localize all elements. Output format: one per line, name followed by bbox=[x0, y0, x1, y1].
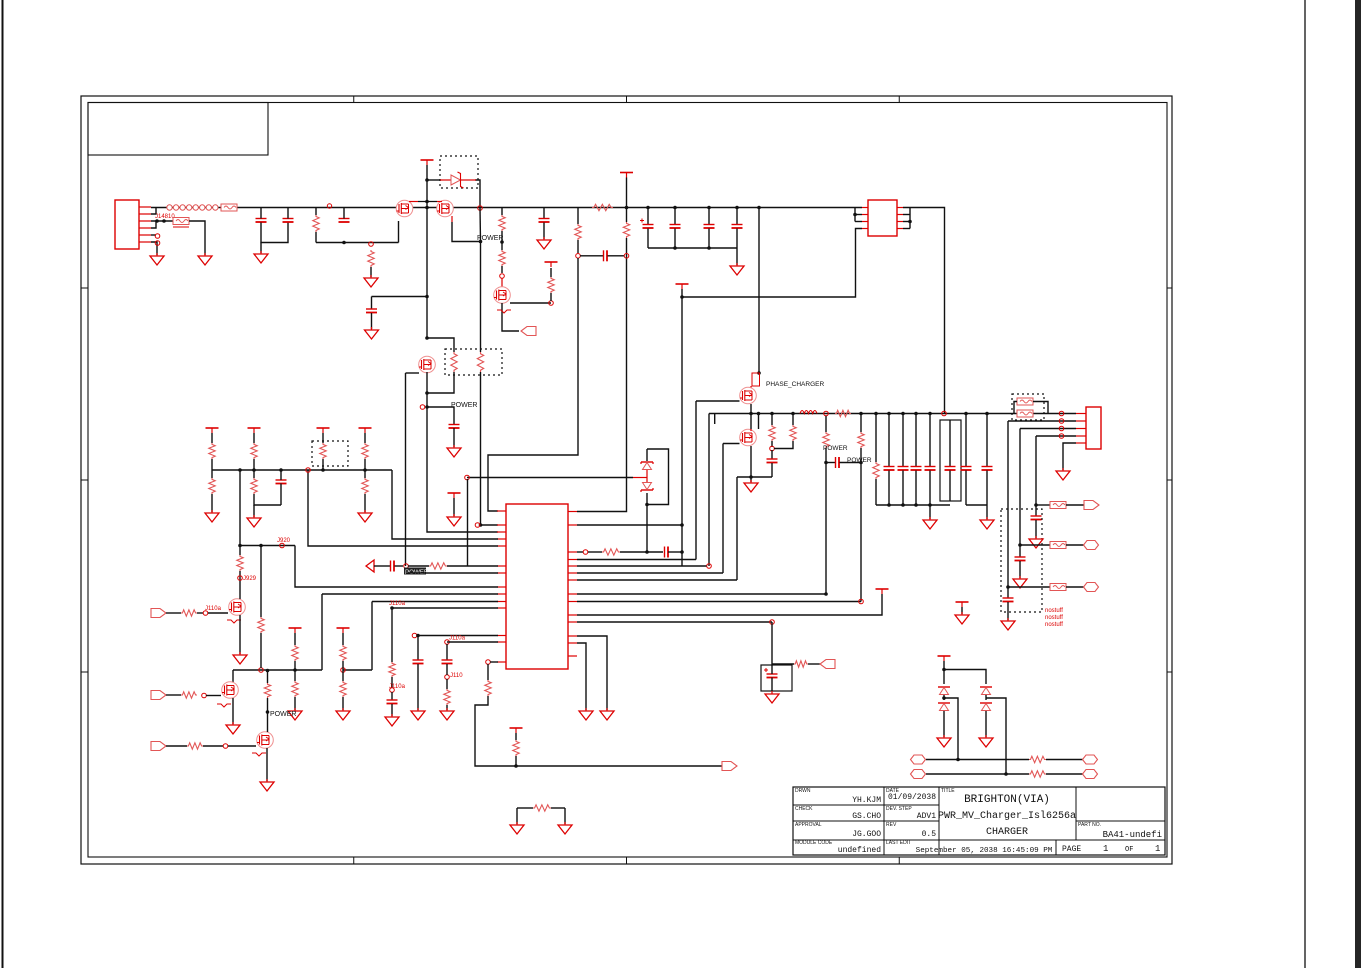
wire R26 bottom bbox=[211, 459, 213, 470]
wire diode midL branch bbox=[944, 698, 958, 760]
wire R6 bottom bbox=[501, 266, 503, 273]
junction bus2 C19 bbox=[985, 412, 989, 416]
wire row477 bbox=[467, 477, 633, 479]
wire C7 bottom bbox=[647, 229, 649, 249]
inductor L2 bbox=[800, 411, 817, 414]
bead L1 turn 4 bbox=[186, 205, 191, 210]
wire J2 pin4 bbox=[1036, 435, 1076, 437]
wire U2 pin635 left bbox=[418, 635, 498, 637]
wire x861 riser bbox=[860, 463, 862, 602]
wire cap bank bottom bbox=[648, 247, 737, 249]
junction circle x772 bbox=[770, 446, 775, 451]
ground G15 bbox=[955, 612, 969, 624]
zone tick right 3 bbox=[1167, 671, 1172, 673]
wire Q3 source bbox=[426, 372, 428, 407]
wire x322 riser bbox=[321, 594, 323, 670]
wire J2 pin2 bbox=[1008, 420, 1076, 422]
wire pin4 riser bbox=[1035, 436, 1037, 505]
wire diode D1 branch a bbox=[427, 179, 441, 181]
net flag FL1 bbox=[521, 327, 536, 336]
wire J1 pin4 jog bbox=[151, 221, 156, 228]
wire U1 rpin2 bbox=[903, 214, 910, 216]
top-left title box bbox=[88, 103, 268, 156]
wire POWER row b bbox=[408, 565, 429, 567]
ground G21 bbox=[579, 708, 593, 720]
resistor R41 bbox=[187, 743, 203, 749]
wire C4 top bbox=[543, 208, 545, 219]
fuse F4 (nostuff) bbox=[1017, 398, 1033, 405]
resistor R14 bbox=[790, 425, 796, 441]
power tap R29T bbox=[359, 428, 372, 433]
wire R18 top bbox=[875, 414, 877, 463]
wire R4 gnd bbox=[370, 267, 372, 277]
Q8 body diode bbox=[217, 704, 231, 707]
junction bus x675 bbox=[673, 206, 677, 210]
U2 left pin y566 stub bbox=[497, 565, 506, 567]
diode D8 bbox=[980, 703, 992, 711]
ground G9 bbox=[923, 517, 937, 529]
wire y297 to U1 bbox=[682, 229, 862, 298]
wire col295 d bbox=[294, 697, 296, 710]
wire R32 gnd bbox=[364, 494, 366, 512]
wire capbank2 gnd drop bbox=[929, 505, 931, 519]
J1 pin 1 stub bbox=[139, 206, 151, 208]
wire R10 bottom bbox=[427, 372, 454, 393]
U1 right pin 2 stub bbox=[897, 214, 903, 216]
wire R31 tails bbox=[253, 470, 255, 478]
wire x488 col bbox=[487, 664, 489, 680]
wire row560 bbox=[577, 559, 696, 561]
resistor R8 bbox=[575, 224, 581, 240]
junction circle J2 pin4 bbox=[1059, 434, 1064, 439]
capacitor C19 plates bbox=[982, 467, 993, 471]
junction x427 y338 bbox=[425, 336, 429, 340]
wire row601 bbox=[577, 601, 861, 603]
wire C20 drop bbox=[1035, 505, 1037, 516]
capacitor C10 plates bbox=[732, 225, 743, 229]
wire C18 top bbox=[965, 414, 967, 467]
junction circle bus x480 bbox=[478, 206, 483, 211]
junction x826 y462 bbox=[824, 461, 828, 465]
zone tick bottom 3 bbox=[898, 857, 900, 864]
wire P8 stem bbox=[453, 498, 455, 516]
U2 right pin y511.5 stub bbox=[568, 511, 577, 513]
Q7 body diode bbox=[227, 620, 241, 623]
sheet outer border bbox=[81, 96, 1172, 864]
wire D8 gnd bbox=[985, 711, 987, 737]
mosfet Q1 bbox=[396, 200, 413, 217]
sheet inner border bbox=[88, 103, 1167, 858]
junction circle row670 x343 bbox=[341, 668, 346, 673]
wire R3 bottom bbox=[315, 232, 317, 243]
Q2 source stub bbox=[451, 216, 453, 222]
wire x578 down bbox=[488, 258, 578, 511]
sense box B1 bbox=[940, 420, 961, 501]
junction POWER Q9 bbox=[266, 710, 270, 714]
wire J1 pin5 stub bbox=[151, 234, 156, 236]
svg-text:JG.GOO: JG.GOO bbox=[852, 830, 881, 839]
zone tick left 2 bbox=[81, 479, 88, 481]
U2 left pin y601.5 stub bbox=[497, 601, 506, 603]
junction capbank2 x916 bbox=[914, 503, 918, 507]
ground G7 bbox=[730, 263, 744, 275]
wire C29 bottom bbox=[280, 484, 282, 506]
junction capbank a bbox=[673, 246, 677, 250]
diode D1 (nostuff) bbox=[440, 172, 476, 188]
junction x427 bus bbox=[425, 206, 429, 210]
net flag FL12 bbox=[911, 770, 926, 779]
wire Q4 gate right bbox=[510, 302, 551, 304]
junction row759 bbox=[956, 758, 960, 762]
junction x427 y393 bbox=[425, 391, 429, 395]
junction row594 bbox=[824, 592, 828, 596]
svg-text:OF: OF bbox=[1125, 846, 1133, 854]
wire x427 to U2 pin4 bbox=[427, 407, 498, 532]
wire Q9 drain upper bbox=[267, 671, 269, 684]
resistor R37 bbox=[292, 681, 298, 697]
net flag FL9 bbox=[151, 742, 166, 751]
wire pin2 riser bbox=[1007, 421, 1009, 587]
wire U1 right tie bbox=[909, 208, 911, 229]
wire Q5 source bbox=[750, 404, 752, 414]
wire R18 bottom bbox=[875, 479, 877, 505]
junction J920 x261 bbox=[259, 544, 263, 548]
page divider line bbox=[1304, 0, 1306, 968]
wire R5-R6 bbox=[501, 231, 503, 250]
wire R20 bottom bbox=[391, 677, 393, 688]
junction row470 x254 bbox=[252, 468, 256, 472]
resistor R34 bbox=[237, 555, 243, 571]
wire zener bot stub bbox=[646, 493, 648, 552]
U2 right pin y643 stub bbox=[568, 642, 577, 644]
ground G11 bbox=[1056, 468, 1070, 480]
wire x427 vertical bbox=[426, 165, 428, 338]
power tap P11 bbox=[938, 656, 951, 661]
wire R26 top bbox=[211, 433, 213, 443]
ic U2 bbox=[506, 504, 568, 669]
junction circle row477 bbox=[465, 475, 470, 480]
U2 left pin y594 stub bbox=[497, 593, 506, 595]
capacitor C17 plates bbox=[945, 467, 956, 471]
wire row580 bbox=[577, 579, 737, 581]
zone tick right 1 bbox=[1167, 287, 1172, 289]
junction circle x424 y407 bbox=[420, 405, 425, 410]
wire C15 bottom bbox=[915, 471, 917, 506]
net flag FL7 bbox=[151, 609, 166, 618]
wire R25 row bbox=[772, 663, 794, 665]
wire C14 bottom bbox=[902, 471, 904, 506]
wire R3 top bbox=[315, 208, 317, 216]
capacitor C29 plates bbox=[276, 480, 287, 484]
wire F4 bypass b bbox=[1033, 402, 1048, 414]
wire R8 bottom bbox=[577, 240, 579, 253]
wire Q9 source bbox=[266, 748, 268, 781]
junction x516 y766 bbox=[514, 764, 518, 768]
svg-text:undefined: undefined bbox=[838, 846, 881, 855]
resistor R32 bbox=[362, 478, 368, 494]
svg-text:J110a: J110a bbox=[205, 606, 222, 612]
mosfet Q8 bbox=[222, 682, 239, 699]
wire C19 bottom bbox=[986, 471, 988, 506]
wire row505 bbox=[1036, 504, 1050, 506]
filter F2 (J14810) bbox=[173, 218, 189, 228]
svg-text:BRIGHTON(VIA): BRIGHTON(VIA) bbox=[964, 794, 1050, 806]
junction x427 y407 bbox=[425, 405, 429, 409]
wire U1 to charge bus bbox=[903, 208, 945, 414]
junction bus2 x772 bbox=[770, 412, 774, 416]
svg-text:J929: J929 bbox=[243, 576, 257, 582]
capacitor C18 plates bbox=[961, 467, 972, 471]
fuse F5 bbox=[1050, 502, 1066, 509]
wire row636 bbox=[577, 636, 607, 710]
wire Q4 source down bbox=[502, 303, 519, 331]
wire C7 top bbox=[647, 208, 649, 225]
ground G34 bbox=[979, 735, 993, 747]
wire C5 gnd bbox=[371, 313, 373, 329]
wire R13 bottom bbox=[771, 441, 773, 447]
mosfet Q9 bbox=[257, 732, 274, 749]
wire U1 rpin4 bbox=[903, 228, 910, 230]
wire M1 source drop bbox=[398, 221, 400, 243]
U2 right pin y566 stub bbox=[568, 565, 577, 567]
junction bus2 C15 bbox=[914, 412, 918, 416]
capacitor C12 bbox=[836, 457, 840, 468]
power tap P7 bbox=[876, 589, 889, 594]
connector J1 bbox=[115, 200, 139, 249]
J1 pin 4 stub bbox=[139, 227, 151, 229]
capacitor C25 plates bbox=[413, 660, 424, 664]
svg-text:J920: J920 bbox=[277, 538, 291, 544]
U2 left pin y573 stub bbox=[497, 572, 506, 574]
junction circle row3 bbox=[223, 744, 228, 749]
wire J1 pin3 to F1 bbox=[151, 220, 173, 222]
wire col343 c bbox=[342, 670, 344, 681]
junction bus2 C18 bbox=[964, 412, 968, 416]
junction J1 pin3 b bbox=[162, 219, 166, 223]
capacitor C4 plates bbox=[539, 219, 550, 223]
wire x481 vertical bbox=[480, 242, 482, 353]
wire row670 bbox=[233, 669, 322, 671]
resistor R33 bbox=[181, 610, 197, 616]
wire Q7 drain chain bbox=[239, 546, 241, 556]
wire C1 gnd drop bbox=[260, 243, 262, 254]
net flag FL8 bbox=[151, 691, 166, 700]
resistor R27 bbox=[251, 443, 257, 459]
ground G35 bbox=[447, 445, 461, 457]
ground G5 bbox=[365, 327, 379, 339]
wire P5 stem bbox=[961, 607, 963, 614]
U2 left pin y532 stub bbox=[497, 531, 506, 533]
wire C9 top bbox=[708, 208, 710, 225]
wire C19 top bbox=[986, 414, 988, 467]
junction circle J929 bbox=[238, 576, 243, 581]
capacitor C6 bbox=[604, 250, 608, 261]
wire Q5 gate riser bbox=[695, 401, 697, 560]
wire Q3 bypass right bbox=[427, 338, 454, 352]
U2 left pin y662 stub bbox=[497, 661, 506, 663]
wire F4 bypass bbox=[1014, 402, 1017, 414]
wire C18 bottom bbox=[965, 471, 967, 506]
wire Q8 source bbox=[232, 698, 234, 724]
wire row587 bbox=[1008, 586, 1050, 588]
bead L1 turn 3 bbox=[180, 205, 185, 210]
resistor R40 bbox=[181, 692, 197, 698]
U2 right pin y615 stub bbox=[568, 614, 577, 616]
junction circle R4 top bbox=[369, 242, 374, 247]
ic U1 bbox=[868, 200, 897, 236]
net flag FL4 bbox=[1084, 583, 1099, 592]
ground G6 bbox=[537, 237, 551, 249]
wire x467 riser bbox=[467, 479, 469, 566]
wire x826 riser bbox=[825, 463, 827, 595]
svg-text:GS.CHO: GS.CHO bbox=[852, 812, 881, 821]
wire x481 top bbox=[479, 208, 482, 242]
svg-text:1: 1 bbox=[1155, 844, 1160, 854]
junction circle J2 pin3 bbox=[1059, 426, 1064, 431]
U2 right pin y525 stub bbox=[568, 524, 577, 526]
resistor R3 bbox=[313, 215, 319, 232]
U2 right pin y552 stub bbox=[568, 551, 577, 553]
capacitor C20 plates bbox=[1031, 516, 1042, 520]
mosfet Q6 bbox=[740, 429, 757, 446]
wire C28 bot stub bbox=[771, 678, 773, 692]
Q5 drain stub bbox=[750, 386, 752, 388]
resistor R24 bbox=[602, 549, 620, 555]
junction capbank b bbox=[707, 246, 711, 250]
ground G24 bbox=[358, 510, 372, 522]
resistor R13 bbox=[769, 425, 775, 441]
ground G30 bbox=[260, 779, 274, 791]
junction zener bottom bbox=[645, 503, 649, 507]
wire J2 pin3 bbox=[1020, 428, 1076, 430]
Q9 body diode bbox=[252, 753, 266, 756]
wire C12 row b bbox=[840, 462, 862, 464]
junction circle x709 bbox=[707, 564, 712, 569]
junction x418 bbox=[416, 634, 420, 638]
ground G4 bbox=[364, 275, 378, 287]
junction circle row670 bbox=[259, 668, 264, 673]
resistor R7 bbox=[548, 277, 554, 293]
wire C19 gnd drop bbox=[986, 505, 988, 519]
wire U2 pin601 left bbox=[372, 601, 498, 603]
wire main input bus bbox=[151, 207, 862, 209]
resistor R20 bbox=[389, 662, 395, 677]
wire capbank gnd drop bbox=[736, 248, 738, 265]
wire zener top stub bbox=[646, 449, 648, 461]
wire row573 bbox=[577, 572, 723, 574]
U1 right pin 4 stub bbox=[897, 228, 903, 230]
junction drain rail bbox=[425, 200, 429, 204]
wire Q6 drain b bbox=[758, 414, 760, 430]
wire C14 top bbox=[902, 414, 904, 467]
wire R17 bottom bbox=[860, 448, 862, 463]
wire row545 b bbox=[1066, 544, 1084, 546]
wire U2 pin594 left bbox=[322, 593, 498, 595]
wire ladder row470 bbox=[212, 469, 392, 471]
power tap P9 bbox=[289, 628, 302, 633]
svg-text:CHECK: CHECK bbox=[795, 806, 813, 812]
wire C5 drop bbox=[371, 297, 373, 310]
wire J1 pin2 jog bbox=[151, 208, 156, 215]
power tap P5 bbox=[956, 602, 969, 607]
wire U1 rpin3 bbox=[903, 221, 910, 223]
junction bus2 x876 bbox=[874, 412, 878, 416]
ground G31 bbox=[510, 822, 524, 834]
wire J920 row bbox=[240, 545, 296, 547]
wire x682 vertical bbox=[681, 289, 683, 566]
resistor R28 (nostuff) bbox=[320, 443, 326, 459]
wire C12 row a bbox=[826, 462, 836, 464]
svg-text:J14810: J14810 bbox=[155, 214, 175, 220]
junction x647 y552 bbox=[645, 550, 649, 554]
junction circle J110a bbox=[390, 688, 395, 693]
junction x502 bbox=[500, 240, 504, 244]
junction diode mid L bbox=[942, 696, 946, 700]
wire capbank2 bottom bbox=[876, 504, 950, 506]
U2 right pin y559.5 stub bbox=[568, 559, 577, 561]
wire C6 row left bbox=[580, 255, 603, 257]
wire C13 top bbox=[888, 414, 890, 467]
wire FL9 row bbox=[166, 745, 187, 747]
page right dark band bbox=[1355, 0, 1361, 968]
resistor R44 bbox=[1029, 771, 1046, 777]
wire charge bus bbox=[709, 413, 1076, 415]
resistor R18 bbox=[873, 462, 879, 479]
mosfet Q7 bbox=[229, 599, 246, 616]
U2 left pin y511 stub bbox=[497, 510, 506, 512]
svg-text:MODULE CODE: MODULE CODE bbox=[795, 840, 833, 846]
wire bus2 left riser bbox=[708, 414, 710, 567]
ground G32 bbox=[558, 822, 572, 834]
junction bus2 C13 bbox=[887, 412, 891, 416]
J2 pin 3 stub bbox=[1076, 428, 1086, 430]
wire J2 pin5 gnd bbox=[1063, 443, 1076, 470]
wire R41 right bbox=[203, 745, 223, 747]
power tap P4 bbox=[676, 284, 689, 289]
wire Q6 gate riser bbox=[722, 444, 724, 574]
junction x1036 y505 bbox=[1034, 503, 1038, 507]
wire C25 gnd bbox=[417, 664, 419, 710]
wire Q9 drain mid bbox=[267, 698, 269, 732]
wire row545 bbox=[1020, 544, 1050, 546]
wire x418 col bbox=[417, 636, 419, 661]
junction bus x709 bbox=[707, 206, 711, 210]
ground G17 bbox=[411, 708, 425, 720]
power tap P8 bbox=[448, 493, 461, 498]
junction circle J110 bbox=[445, 675, 450, 680]
ground G27 bbox=[288, 708, 302, 720]
wire row552 c bbox=[620, 551, 663, 553]
resistor R11 bbox=[477, 352, 483, 372]
power tap P3 bbox=[620, 173, 633, 178]
power tap R26T bbox=[206, 428, 219, 433]
svg-text:J110a: J110a bbox=[389, 684, 406, 690]
wire zener bracket bbox=[647, 449, 669, 505]
svg-text:PHASE_CHARGER: PHASE_CHARGER bbox=[766, 381, 824, 388]
wire Q6 gate bbox=[723, 443, 740, 445]
svg-text:POWER: POWER bbox=[451, 402, 477, 409]
junction capbank2 x889 bbox=[887, 503, 891, 507]
junction x682 y552 bbox=[680, 550, 684, 554]
U1 left pin 4 stub bbox=[862, 228, 868, 230]
U2 right pin y580 stub bbox=[568, 579, 577, 581]
dotted box D1 (nostuff) bbox=[440, 156, 478, 188]
capacitor C16 plates bbox=[925, 467, 936, 471]
svg-text:DRWN: DRWN bbox=[795, 788, 811, 794]
svg-text:September 05, 2038 16:45:09 PM: September 05, 2038 16:45:09 PM bbox=[916, 847, 1053, 855]
ground G33 bbox=[937, 735, 951, 747]
wire net x405 down bbox=[405, 373, 407, 566]
